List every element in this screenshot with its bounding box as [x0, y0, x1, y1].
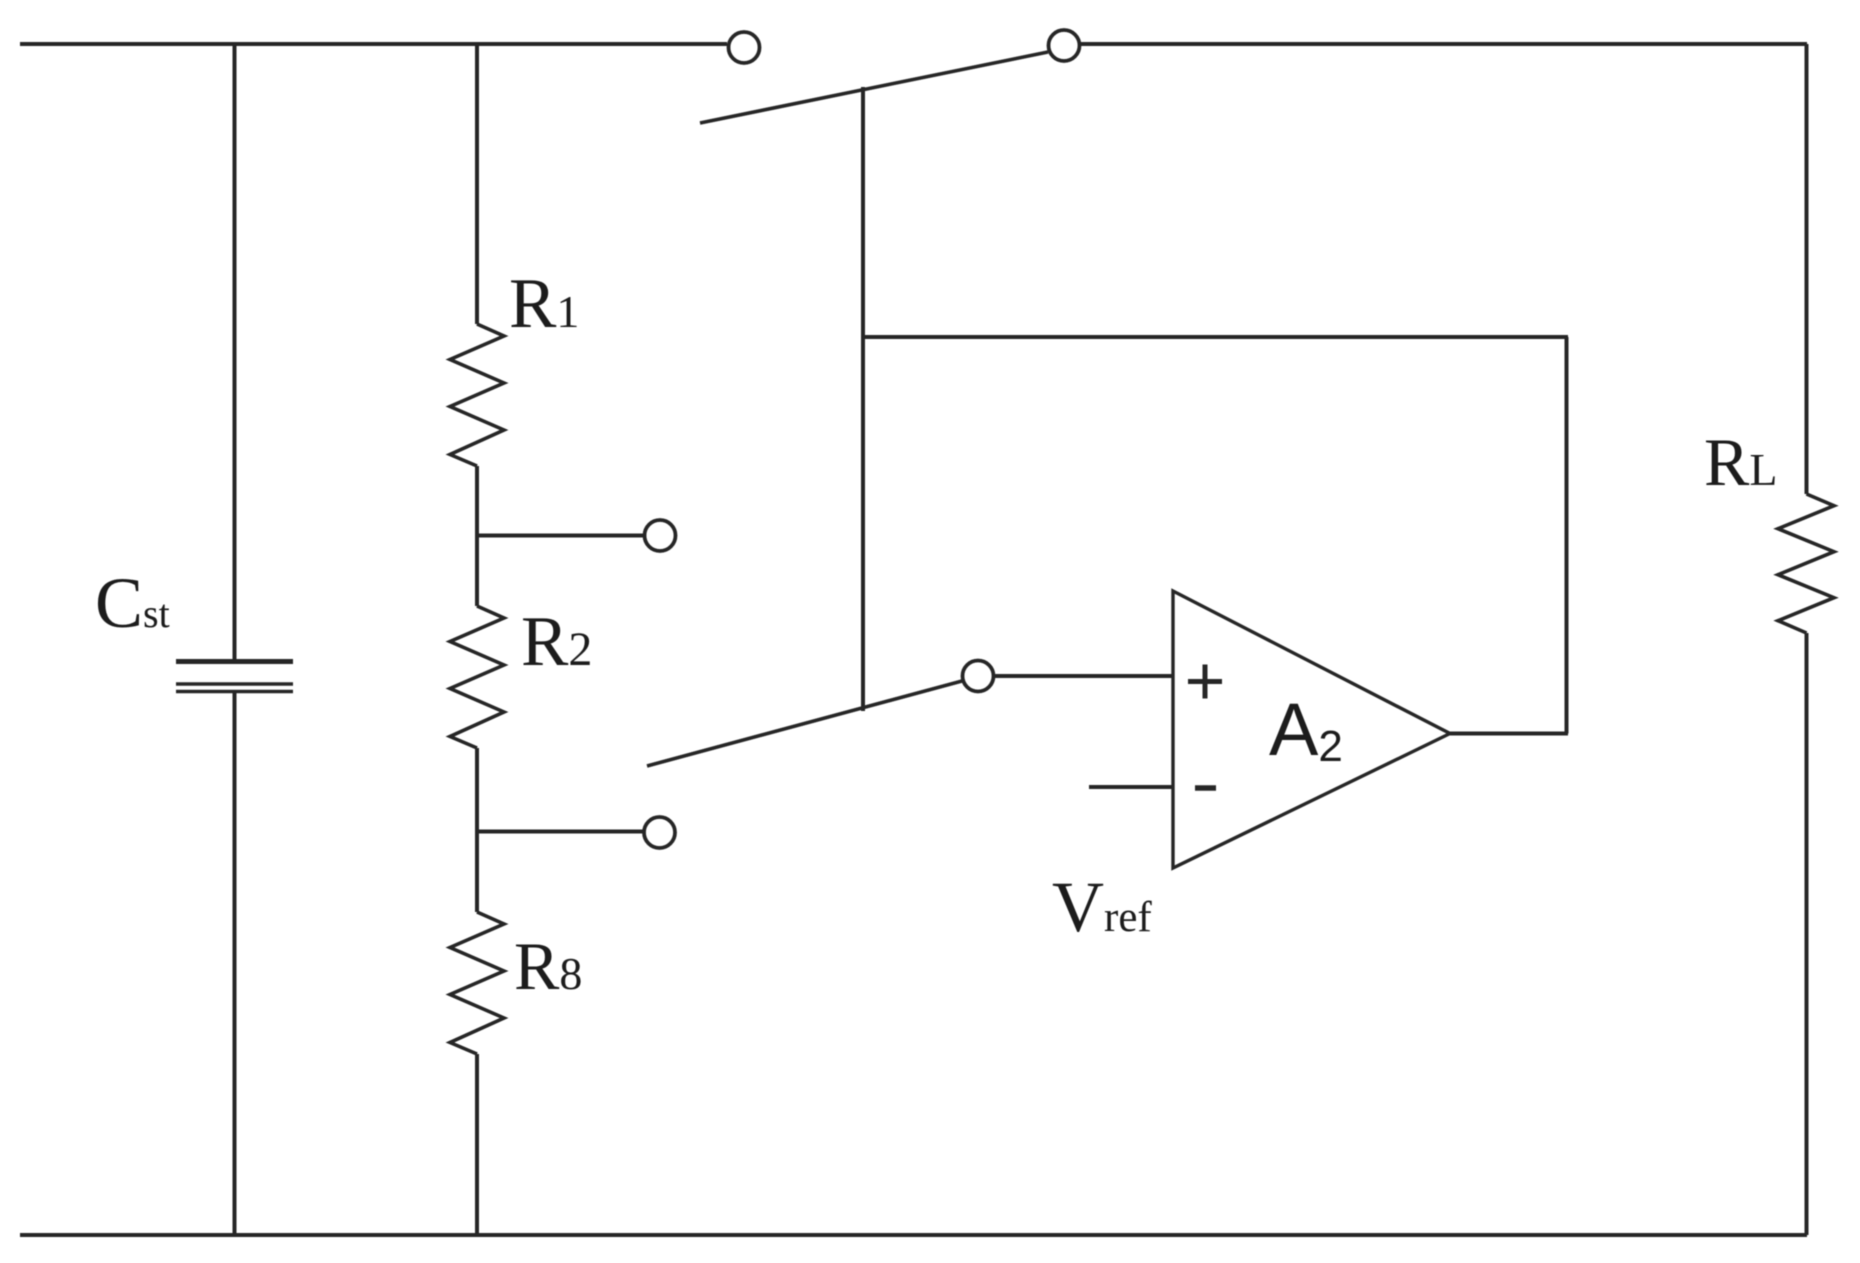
wire R1 to R2	[475, 466, 479, 606]
resistor R8	[450, 912, 504, 1054]
wire R8 bottom lead	[475, 1054, 479, 1235]
wire bottom rail	[20, 1233, 1807, 1237]
resistor R1	[450, 324, 504, 466]
svg-text:Vref: Vref	[1052, 867, 1152, 947]
wire feedback top horizontal	[861, 335, 1568, 339]
capacitor Cst bottom plate upper line	[176, 682, 293, 686]
switch S1 terminal circle right	[1049, 30, 1080, 61]
load resistor RL branch top lead	[1805, 44, 1809, 494]
wire tap 2 horizontal	[477, 830, 643, 834]
node tap 1 terminal circle	[645, 520, 676, 551]
switch S2 terminal circle	[963, 661, 994, 692]
wire op-amp output	[1450, 732, 1568, 736]
wire RL bottom lead	[1805, 633, 1809, 1235]
op-amp plus sign	[1188, 665, 1222, 699]
switch S1 terminal circle left	[729, 32, 760, 63]
svg-text:A2: A2	[1269, 688, 1343, 771]
wire feedback right vertical	[1565, 337, 1569, 734]
wire top rail left segment	[20, 42, 727, 46]
switch S2 blade	[647, 681, 962, 766]
capacitor Cst bottom plate lower line	[176, 690, 293, 694]
svg-text:R1: R1	[509, 265, 579, 343]
wire tap 1 horizontal	[477, 534, 644, 538]
capacitor Cst top plate	[176, 659, 293, 664]
capacitor Cst bottom lead	[233, 693, 237, 1235]
resistor RL	[1778, 494, 1834, 633]
resistor R2	[450, 606, 504, 748]
capacitor Cst top lead	[233, 42, 237, 659]
node tap 2 terminal circle	[644, 817, 675, 848]
svg-text:R8: R8	[514, 928, 582, 1004]
op-amp A2 triangle	[1173, 591, 1450, 868]
svg-text:R2: R2	[521, 603, 592, 681]
wire top rail right segment	[1081, 42, 1807, 46]
wire resistor branch top lead	[475, 42, 479, 324]
wire R2 to R8	[475, 748, 479, 912]
svg-text:RL: RL	[1704, 424, 1777, 500]
op-amp minus sign	[1195, 785, 1216, 791]
wire switch pole vertical (node between S1 and S2)	[861, 87, 865, 711]
switch S1 blade	[700, 52, 1048, 123]
svg-text:Cst: Cst	[95, 563, 170, 643]
wire op-amp inverting input (Vref)	[1089, 785, 1173, 789]
wire op-amp non-inverting input	[995, 674, 1173, 678]
